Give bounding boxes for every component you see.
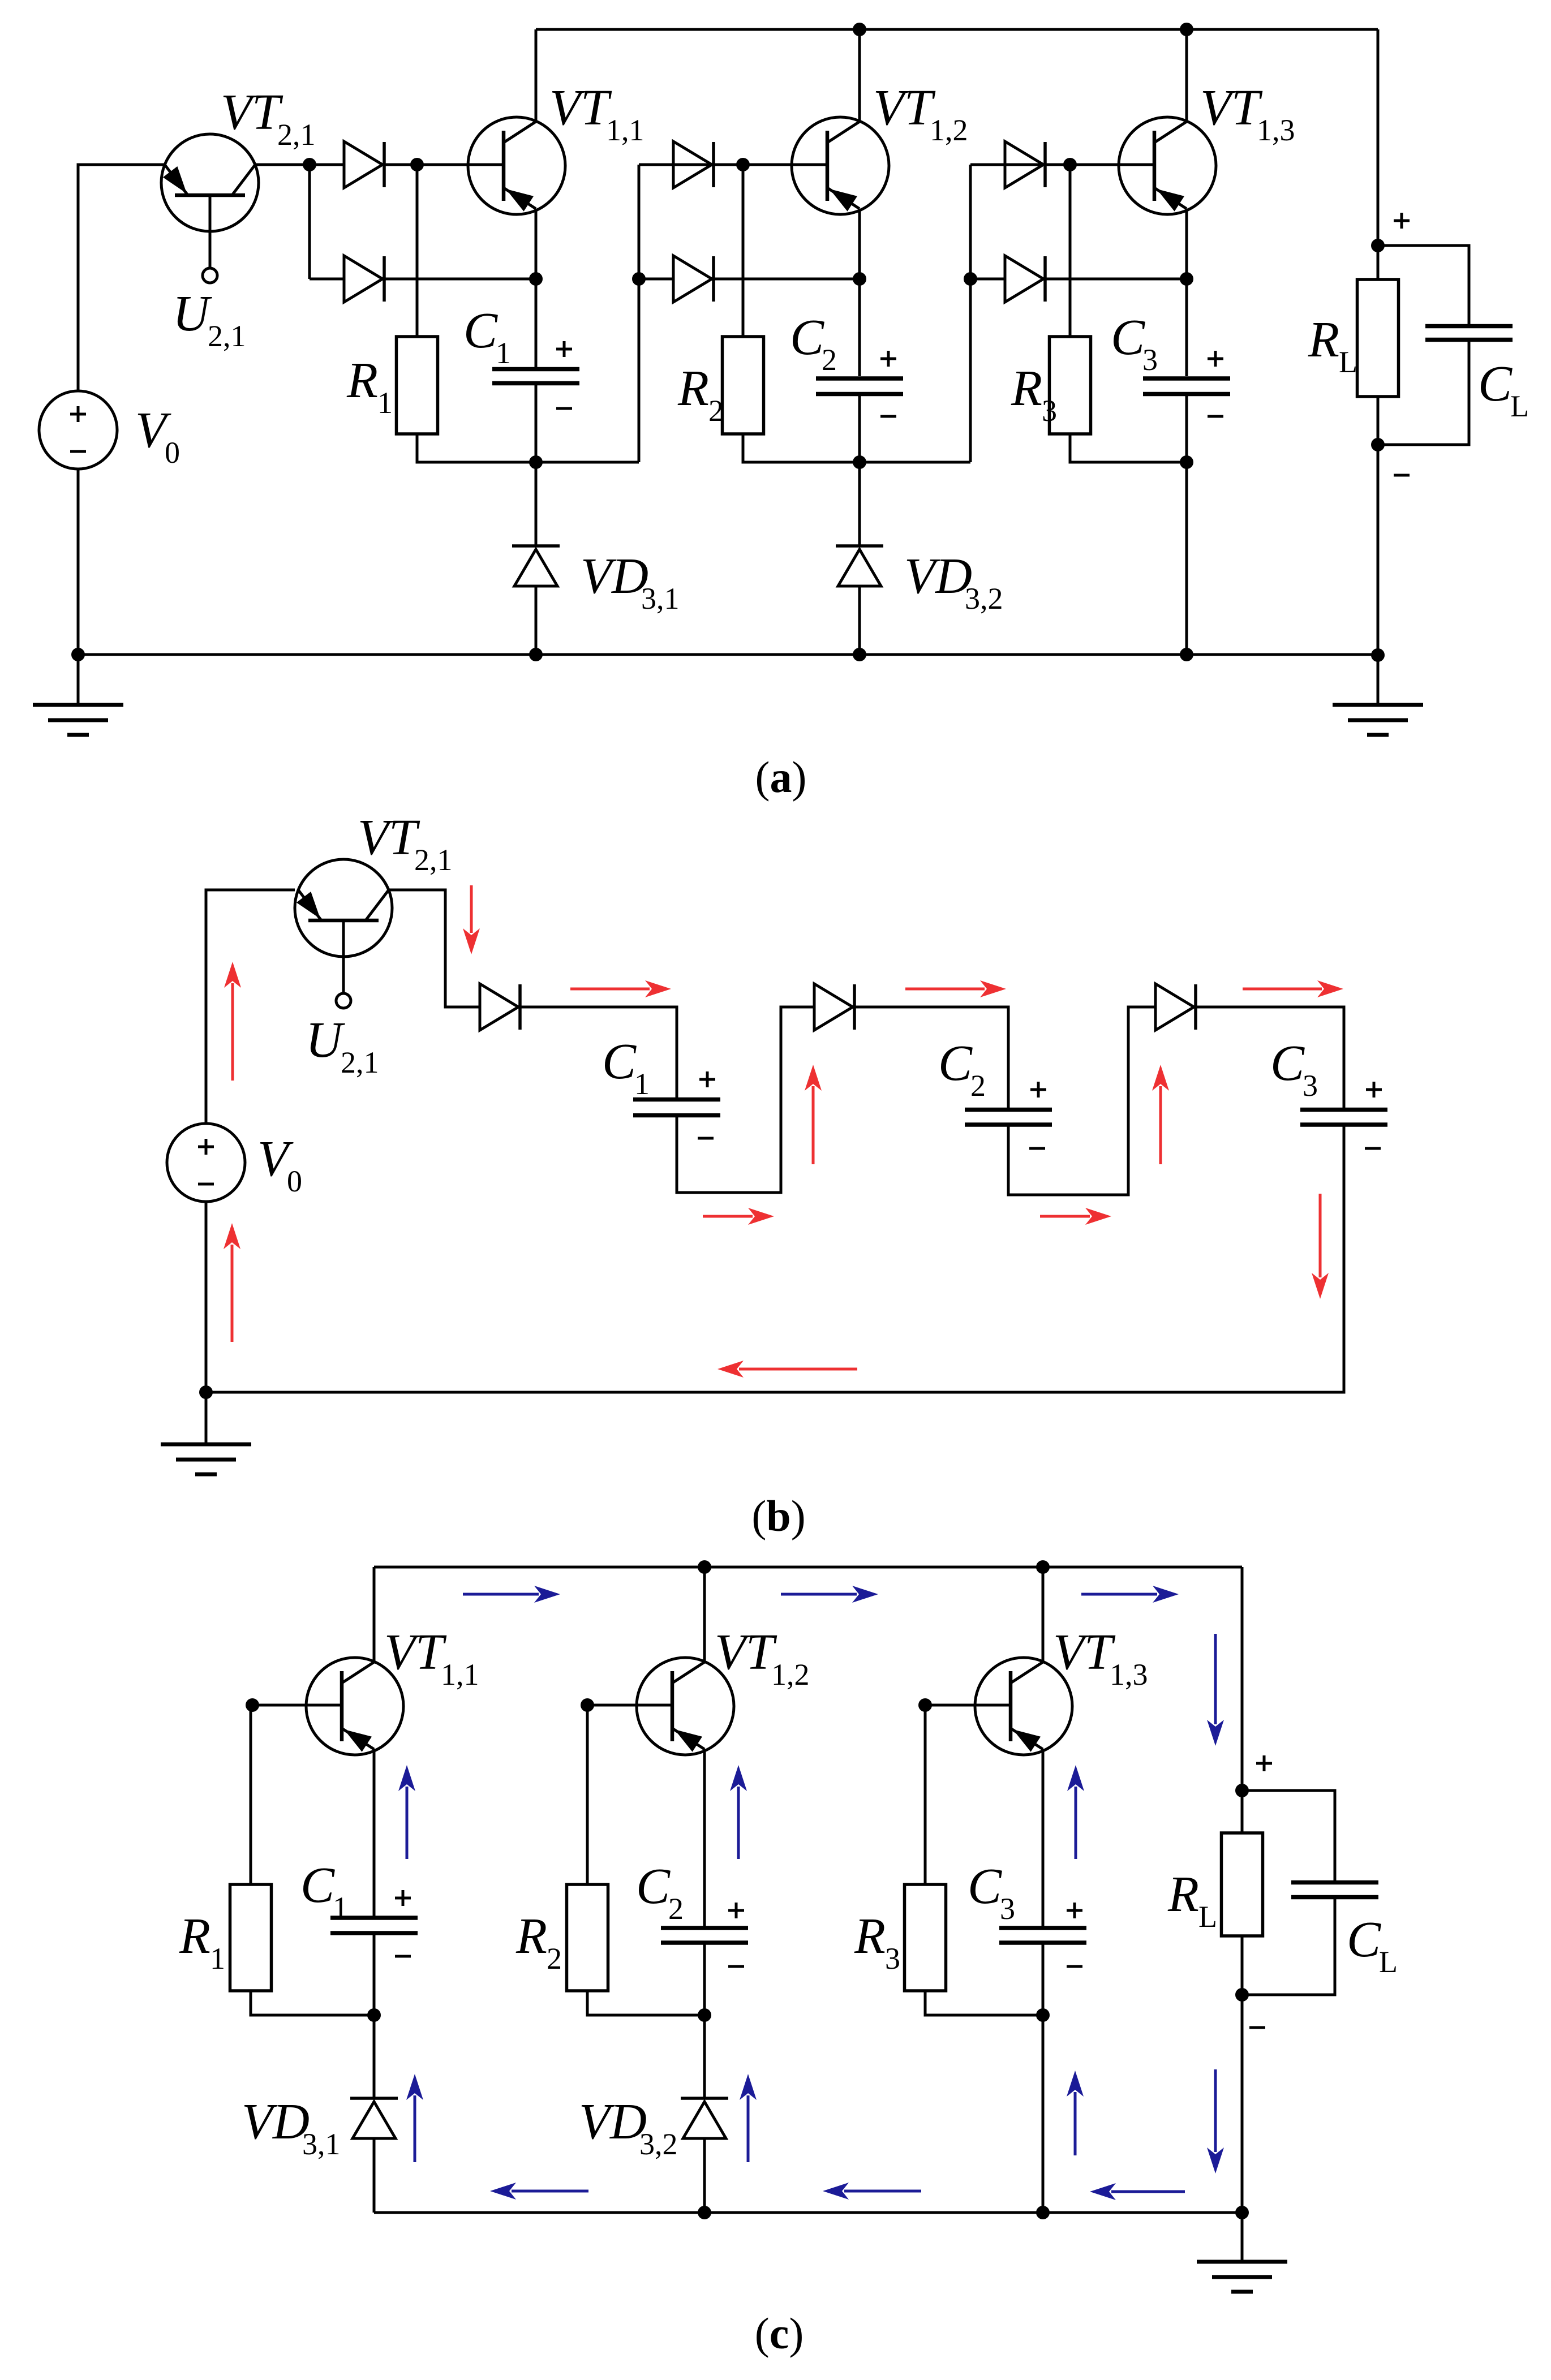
label VD3,1 panel c <box>242 2094 341 2161</box>
node C2 top junction <box>853 272 866 286</box>
label V0 panel b <box>257 1131 302 1198</box>
svg-text:1: 1 <box>333 1891 348 1925</box>
wire VD3,1 anode to ground rail <box>535 586 538 655</box>
label C1 plus <box>556 341 572 357</box>
wire R3 top lead panel c <box>924 1705 927 1884</box>
svg-text:R: R <box>515 1908 547 1964</box>
node stage3 R3 tap <box>1063 158 1077 171</box>
svg-text:0: 0 <box>287 1164 302 1198</box>
wire VT1,3 emitter to C3 panel c <box>1042 1749 1045 1928</box>
node C1 top junction <box>529 272 543 286</box>
resistor R1 panel a <box>397 337 438 434</box>
current arrow up emitter 2 panel c <box>730 1765 747 1859</box>
wire VD3,2 anode to ground rail <box>858 586 861 655</box>
transistor VT1,2 panel c <box>637 1658 734 1755</box>
transistor VT1,3 panel a <box>1119 117 1216 214</box>
voltage source V0 panel b <box>167 1124 245 1202</box>
current arrow up below V0 panel b <box>224 1223 240 1342</box>
transistor VT1,1 panel c <box>306 1658 403 1755</box>
node top rail VT1,3 panel c <box>1036 1560 1050 1574</box>
diode stage3 lower <box>1005 256 1045 302</box>
svg-text:R: R <box>1167 1866 1199 1922</box>
svg-text:C: C <box>636 1858 671 1914</box>
svg-text:R: R <box>1011 360 1042 416</box>
wire VD3,2 anode panel c <box>703 2138 706 2213</box>
wire stage3 riser <box>969 165 972 462</box>
wire VT2,1 collector corner panel b <box>389 890 480 1007</box>
wire stage3 mid to ground rail <box>1185 462 1188 655</box>
label C3 minus panel c <box>1067 1965 1082 1968</box>
svg-text:L: L <box>1339 345 1357 379</box>
svg-text:VT: VT <box>549 80 612 136</box>
label C3 plus panel c <box>1067 1903 1082 1918</box>
label C3 panel a <box>1111 309 1158 377</box>
label C3 minus panel b <box>1365 1147 1381 1150</box>
svg-text:VT: VT <box>715 1624 777 1680</box>
wire bottom rail panel c <box>374 2211 1242 2214</box>
wire top rail panel c <box>374 1566 1242 1569</box>
wire VT1,3 collector panel c <box>1042 1567 1045 1662</box>
wire C2 top lead <box>858 279 861 376</box>
wire top rail to load panel c <box>1241 1567 1244 1791</box>
label panel c <box>755 2309 804 2358</box>
wire C3 bottom lead <box>1185 394 1188 462</box>
current arrow left bottom rail 1 panel c <box>490 2183 588 2200</box>
wire VT1,1 emitter to C1 panel c <box>373 1749 376 1918</box>
node stage1 R1 tap <box>410 158 424 171</box>
diode stage2 lower <box>673 256 714 302</box>
label load plus <box>1394 213 1410 229</box>
svg-text:VT: VT <box>358 810 420 866</box>
voltage source V0 panel a <box>39 391 117 469</box>
wire R2 top lead <box>742 165 745 337</box>
svg-text:3: 3 <box>1000 1892 1015 1926</box>
wire RL top lead panel c <box>1241 1791 1244 1833</box>
label C2 panel b <box>938 1035 986 1103</box>
node C1 bottom junction panel c <box>367 2008 381 2022</box>
wire C2 bottom lead <box>858 394 861 462</box>
wire bottom ground rail panel a <box>78 653 1378 656</box>
label C1 minus panel c <box>395 1955 411 1958</box>
capacitor C2 panel b <box>965 1110 1052 1125</box>
label C2 panel a <box>790 309 837 377</box>
wire VT1,1 emitter to C1 <box>535 209 538 279</box>
node base/R1 junction panel c <box>246 1698 259 1712</box>
svg-text:VD: VD <box>579 2094 647 2150</box>
wire VD3,2 cathode lead <box>858 462 861 546</box>
label C2 plus <box>880 351 896 367</box>
svg-text:1,2: 1,2 <box>771 1658 810 1692</box>
svg-text:2: 2 <box>668 1892 684 1926</box>
label C1 panel b <box>602 1034 650 1101</box>
diode stage1 upper <box>344 141 384 188</box>
label VT2,1 panel a <box>221 84 316 152</box>
transistor VT1,2 panel a <box>792 117 889 214</box>
current arrow up VD3,1 panel c <box>406 2074 423 2162</box>
diode D3 panel b <box>1155 984 1196 1030</box>
node stage2 mid junction <box>853 455 866 469</box>
node C3 bottom junction panel c <box>1036 2008 1050 2022</box>
wire load bottom to rail panel c <box>1241 1995 1244 2213</box>
label load minus <box>1394 474 1410 477</box>
wire stage1 branch down to lower diode <box>308 165 311 279</box>
diode stage1 lower <box>344 256 384 302</box>
node load bottom junction panel c <box>1235 1988 1249 2002</box>
wire VT1,3 base panel c <box>925 1704 1011 1707</box>
wire RL bottom lead <box>1377 397 1380 445</box>
node stage3 lower branch <box>964 272 977 286</box>
wire top supply rail panel a <box>536 28 1378 31</box>
wire CL top branch panel c <box>1242 1791 1335 1880</box>
diode D2 panel b <box>814 984 854 1030</box>
svg-text:1,3: 1,3 <box>1257 113 1295 147</box>
current arrow up riser2 panel b <box>1152 1065 1169 1164</box>
current arrow left bottom rail 2 panel c <box>823 2183 921 2200</box>
label R2 panel c <box>515 1908 562 1976</box>
ground symbol right panel a <box>1333 655 1423 735</box>
resistor R3 panel c <box>905 1884 946 1991</box>
node stage1 upper branch <box>303 158 316 171</box>
wire V0 minus to ground rail <box>77 469 80 655</box>
node load bottom junction <box>1371 438 1385 451</box>
svg-text:2: 2 <box>547 1942 562 1976</box>
wire VD3,2 cathode lead panel c <box>703 2015 706 2098</box>
capacitor C2 panel c <box>661 1928 748 1943</box>
wire RL top lead <box>1377 246 1380 279</box>
current arrow right under C2 panel b <box>1040 1208 1111 1225</box>
resistor R1 panel c <box>230 1884 272 1991</box>
svg-text:C: C <box>968 1858 1002 1914</box>
wire top rail drop to VT1,2 collector <box>858 29 861 122</box>
wire VT1,2 emitter to C2 panel c <box>703 1749 706 1928</box>
ground symbol panel b <box>161 1392 251 1474</box>
node stage1 mid junction <box>529 455 543 469</box>
resistor R2 panel c <box>567 1884 608 1991</box>
svg-text:(b): (b) <box>751 1491 805 1540</box>
label VD3,1 panel a <box>581 548 680 616</box>
svg-text:R: R <box>677 360 709 416</box>
wire diode1 to VT1,1 base <box>384 163 504 166</box>
wire R2 bottom to mid rail <box>743 434 970 462</box>
label VD3,2 panel c <box>579 2094 678 2161</box>
current arrow up stage3 panel c <box>1067 2071 1084 2155</box>
svg-text:2,1: 2,1 <box>414 843 453 877</box>
svg-text:L: L <box>1379 1945 1398 1979</box>
node C3 top junction <box>1180 272 1193 286</box>
svg-text:1,3: 1,3 <box>1110 1658 1148 1692</box>
svg-text:(a): (a) <box>755 752 807 802</box>
wire C3 top lead <box>1185 279 1188 376</box>
svg-text:VT: VT <box>1200 80 1263 136</box>
wire R1 top lead <box>416 165 419 337</box>
svg-text:2,1: 2,1 <box>277 118 316 152</box>
svg-text:3,1: 3,1 <box>641 582 680 616</box>
wire VT1,1 collector to top rail <box>535 29 538 122</box>
node stage3 ground junction <box>1180 648 1193 661</box>
label C1 panel c <box>300 1857 348 1925</box>
label R3 panel a <box>1011 360 1057 428</box>
wire C1 bottom lead panel c <box>373 1933 376 2015</box>
svg-text:L: L <box>1198 1900 1217 1934</box>
resistor RL panel a <box>1357 279 1399 397</box>
wire VT1,1 collector panel c <box>373 1567 376 1662</box>
svg-text:VT: VT <box>221 84 283 140</box>
label C3 panel c <box>968 1858 1015 1926</box>
wire C3 to bottom rail panel b <box>206 1125 1344 1392</box>
label R2 panel a <box>677 360 724 428</box>
wire R1 bottom lead panel c <box>251 1991 374 2015</box>
diode VD3,1 panel c <box>350 2098 398 2138</box>
svg-text:0: 0 <box>165 436 180 470</box>
label C3 plus <box>1208 351 1223 367</box>
label panel a <box>755 752 807 802</box>
svg-text:VT: VT <box>873 80 936 136</box>
svg-text:1: 1 <box>210 1942 225 1976</box>
label C2 panel c <box>636 1858 684 1926</box>
label load plus panel c <box>1256 1755 1272 1771</box>
node C2 bottom junction panel c <box>698 2008 711 2022</box>
current arrow right top rail 3 panel c <box>1081 1586 1179 1603</box>
capacitor C3 panel a <box>1143 378 1230 394</box>
current arrow down C3 panel b <box>1312 1194 1329 1299</box>
node stage2 lower branch <box>632 272 646 286</box>
capacitor CL panel c <box>1291 1883 1378 1897</box>
label C1 minus panel b <box>698 1137 714 1140</box>
current arrow up riser1 panel b <box>805 1065 822 1164</box>
node V0 ground junction <box>71 648 85 661</box>
current arrow right after D2 panel b <box>905 980 1006 997</box>
wire VD3,1 anode panel c <box>373 2138 376 2213</box>
transistor VT1,3 panel c <box>975 1658 1072 1755</box>
svg-text:2: 2 <box>970 1069 986 1103</box>
current arrow up emitter 1 panel c <box>398 1765 415 1859</box>
transistor VT2,1 panel a <box>161 134 259 283</box>
svg-text:C: C <box>1478 356 1513 412</box>
label V0 panel a <box>135 402 180 470</box>
label VT1,3 panel c <box>1053 1624 1148 1692</box>
wire top rail drop to VT1,3 collector <box>1185 29 1188 122</box>
wire C1 top lead <box>535 279 538 369</box>
label RL panel a <box>1308 312 1357 379</box>
wire C3 junction to bottom rail panel c <box>1042 2015 1045 2213</box>
wire R3 top lead <box>1069 165 1072 337</box>
label RL panel c <box>1167 1866 1217 1934</box>
wire VD3,1 cathode lead <box>535 462 538 546</box>
resistor R2 panel a <box>723 337 764 434</box>
wire C1 bottom U panel b <box>677 1007 814 1193</box>
svg-text:U: U <box>306 1012 345 1068</box>
current arrow right top rail 1 panel c <box>463 1586 560 1603</box>
svg-text:C: C <box>1270 1035 1305 1091</box>
wire VT1,1 base panel c <box>252 1704 342 1707</box>
wire C1 bottom lead <box>535 383 538 462</box>
node ground rail right junction <box>1371 648 1385 662</box>
label load minus panel c <box>1249 2026 1265 2029</box>
label R1 panel c <box>179 1908 225 1976</box>
current arrow up emitter 3 panel c <box>1067 1765 1084 1859</box>
node top rail / VT1,3 collector <box>1180 23 1193 36</box>
wire lower diode to C1 node <box>384 278 536 281</box>
svg-text:VD: VD <box>242 2094 310 2150</box>
capacitor C1 panel a <box>492 369 579 384</box>
svg-text:3: 3 <box>1303 1069 1318 1103</box>
svg-text:C: C <box>938 1035 973 1091</box>
label C1 minus <box>556 407 572 410</box>
node bottom rail C3 panel c <box>1036 2206 1050 2219</box>
current arrow down load bottom panel c <box>1207 2069 1224 2174</box>
svg-text:3,2: 3,2 <box>965 582 1003 616</box>
wire VT1,2 emitter to C2 <box>858 209 861 279</box>
node V0 ground junction panel b <box>199 1385 213 1399</box>
capacitor C2 panel a <box>816 378 903 394</box>
current arrow right under C1 panel b <box>703 1208 774 1225</box>
wire C3 bottom lead panel c <box>1042 1943 1045 2015</box>
svg-text:L: L <box>1510 389 1529 423</box>
wire CL bottom branch <box>1378 339 1469 445</box>
svg-text:3: 3 <box>885 1942 900 1976</box>
label C1 plus panel c <box>395 1890 411 1906</box>
svg-text:1: 1 <box>377 386 393 420</box>
current arrow right top rail 2 panel c <box>781 1586 878 1603</box>
wire V0 plus to VT2,1 emitter <box>78 165 165 391</box>
label C2 minus panel b <box>1029 1147 1045 1150</box>
label C2 plus panel b <box>1030 1082 1046 1098</box>
wire V0 minus to bottom rail panel b <box>205 1202 208 1392</box>
label C3 plus panel b <box>1366 1082 1382 1098</box>
node base/R3 junction panel c <box>918 1698 932 1712</box>
wire C2 bottom lead panel c <box>703 1943 706 2015</box>
wire D2 to C2 panel b <box>854 1007 1008 1108</box>
capacitor CL panel a <box>1425 326 1513 340</box>
diode stage3 upper <box>1005 141 1045 188</box>
svg-text:C: C <box>602 1034 637 1090</box>
svg-text:C: C <box>1111 309 1145 365</box>
diode D1 panel b <box>480 984 520 1030</box>
svg-text:VT: VT <box>1053 1624 1116 1680</box>
node top rail VT1,2 panel c <box>698 1560 711 1574</box>
wire stage3 lower diode feed <box>970 278 1005 281</box>
current arrow right after D3 panel b <box>1243 980 1343 997</box>
label C1 plus panel b <box>699 1071 715 1087</box>
svg-text:C: C <box>790 309 824 365</box>
capacitor C3 panel b <box>1300 1110 1387 1125</box>
svg-text:R: R <box>1308 312 1339 368</box>
label VT1,2 panel a <box>873 80 968 147</box>
wire V0 to VT2,1 emitter panel b <box>206 890 295 1124</box>
svg-text:1: 1 <box>496 336 511 370</box>
svg-text:3: 3 <box>1142 343 1158 377</box>
current arrow down after VT2,1 panel b <box>463 885 480 954</box>
svg-text:R: R <box>854 1908 886 1964</box>
node load top junction <box>1371 239 1385 252</box>
svg-text:C: C <box>1347 1912 1381 1968</box>
current arrow left bottom rail panel b <box>718 1361 857 1378</box>
label CL panel a <box>1478 356 1529 423</box>
wire CL top branch <box>1378 246 1469 324</box>
wire stage2 riser <box>638 165 641 462</box>
label C2 plus panel c <box>728 1903 744 1918</box>
wire R1 bottom to mid rail <box>417 434 639 462</box>
svg-text:R: R <box>346 352 378 408</box>
wire R3 bottom lead panel c <box>925 1991 1043 2015</box>
capacitor C3 panel c <box>999 1928 1086 1943</box>
svg-text:C: C <box>463 303 498 359</box>
node VD3,1 ground junction <box>529 648 543 661</box>
label C2 minus <box>880 415 896 418</box>
wire R3 bottom to mid rail <box>1070 434 1187 462</box>
label VT1,1 panel c <box>384 1624 479 1692</box>
svg-text:2,1: 2,1 <box>341 1045 379 1079</box>
svg-text:2: 2 <box>708 394 724 428</box>
node bottom rail ground panel c <box>1235 2206 1249 2219</box>
wire stage2 lower diode feed <box>639 278 673 281</box>
wire CL bottom branch panel c <box>1242 1897 1335 1995</box>
node stage3 mid junction <box>1180 455 1193 469</box>
wire VD3,1 cathode lead panel c <box>373 2015 376 2098</box>
ground symbol panel c <box>1197 2213 1287 2292</box>
wire stage1 lower diode feed <box>310 278 344 281</box>
label C2 minus panel c <box>728 1965 744 1968</box>
svg-text:1,1: 1,1 <box>441 1658 479 1692</box>
svg-text:(c): (c) <box>755 2309 804 2358</box>
svg-text:3,1: 3,1 <box>302 2127 341 2161</box>
wire R2 bottom lead panel c <box>587 1991 704 2015</box>
diode stage2 upper <box>673 141 714 188</box>
wire C2 bottom U panel b <box>1008 1007 1155 1195</box>
label panel b <box>751 1491 805 1540</box>
current arrow down RL panel c <box>1207 1634 1224 1746</box>
label U2,1 panel b <box>306 1012 379 1079</box>
wire VT1,3 emitter to C3 <box>1185 209 1188 279</box>
node VD3,2 ground junction <box>853 648 866 661</box>
transistor VT2,1 panel b <box>295 859 392 1008</box>
wire VT1,2 collector panel c <box>703 1567 706 1662</box>
capacitor C1 panel c <box>330 1918 418 1933</box>
svg-text:C: C <box>300 1857 335 1913</box>
ground symbol left panel a <box>33 655 123 735</box>
node bottom rail VD3,2 panel c <box>698 2206 711 2219</box>
label C3 minus <box>1208 415 1223 418</box>
node top rail / VT1,2 collector <box>853 23 866 36</box>
wire stage2 lower diode to C2 <box>714 278 860 281</box>
resistor R3 panel a <box>1050 337 1091 434</box>
svg-text:VT: VT <box>384 1624 447 1680</box>
label VT1,1 panel a <box>549 80 645 147</box>
label U2,1 panel a <box>173 286 246 353</box>
current arrow left bottom rail 3 panel c <box>1090 2183 1185 2200</box>
wire VT1,2 base panel c <box>587 1704 672 1707</box>
node base/R2 junction panel c <box>581 1698 594 1712</box>
current arrow up VD3,2 panel c <box>740 2074 757 2162</box>
svg-text:VD: VD <box>904 548 972 604</box>
wire load bottom to ground rail <box>1377 445 1380 655</box>
svg-text:1,1: 1,1 <box>606 113 645 147</box>
label R1 panel a <box>346 352 393 420</box>
svg-text:2: 2 <box>822 343 837 377</box>
wire stage3 lower diode to C3 <box>1045 278 1187 281</box>
wire stage3 upper feed <box>970 163 1154 166</box>
wire top rail right drop to load <box>1377 29 1380 246</box>
diode VD3,2 panel a <box>836 546 883 586</box>
wire VT2,1 collector to stage1 <box>255 163 344 166</box>
diode VD3,2 panel c <box>681 2098 728 2138</box>
label R3 panel c <box>854 1908 900 1976</box>
wire R2 top lead panel c <box>586 1705 589 1884</box>
label C3 panel b <box>1270 1035 1318 1103</box>
wire R1 top lead panel c <box>250 1705 252 1884</box>
resistor RL panel c <box>1222 1833 1263 1936</box>
svg-text:1: 1 <box>634 1067 650 1101</box>
